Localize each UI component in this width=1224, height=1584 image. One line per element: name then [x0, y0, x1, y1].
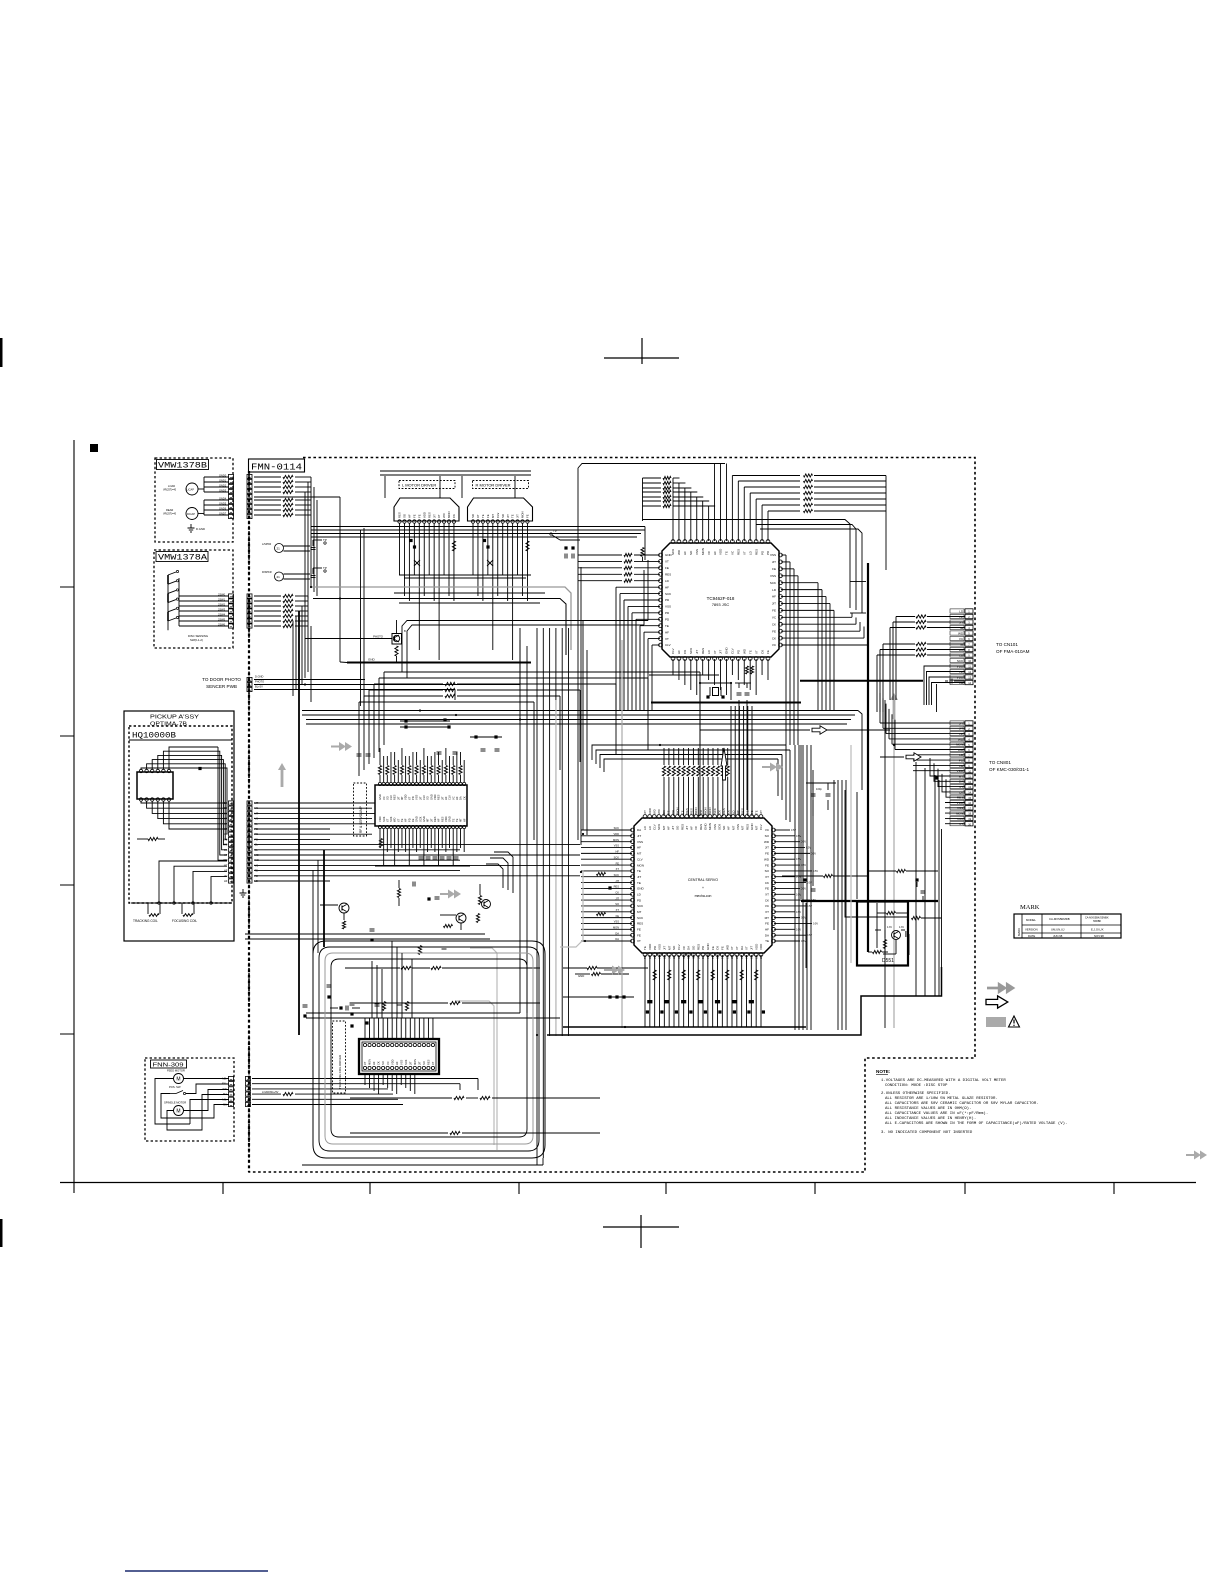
svg-text:WD: WD	[958, 631, 964, 635]
svg-text:VDD: VDD	[378, 816, 382, 822]
VMW1378B label box	[157, 460, 209, 470]
svg-text:VC: VC	[451, 796, 455, 800]
photodiode bottom wires	[141, 802, 227, 804]
svg-text:0.5V: 0.5V	[813, 922, 818, 925]
VMW1378A harness wires	[254, 595, 281, 597]
svg-text:21: 21	[277, 547, 281, 551]
loop bottom rails	[302, 1164, 543, 1166]
svg-text:RES: RES	[433, 816, 437, 822]
svg-text:WD: WD	[657, 809, 661, 814]
svg-text:TE: TE	[400, 818, 404, 822]
IC601 TC9462F	[662, 543, 779, 657]
svg-text:VC: VC	[382, 796, 386, 800]
svg-text:SO: SO	[672, 945, 676, 950]
svg-text:GND1: GND1	[219, 478, 227, 482]
IC801 bottom components	[653, 970, 656, 980]
svg-text:GND: GND	[706, 943, 710, 951]
svg-text:CK: CK	[462, 796, 466, 800]
svg-text:4.3V: 4.3V	[887, 926, 892, 929]
svg-text:UM,UN,UJ: UM,UN,UJ	[1051, 928, 1065, 932]
pickup harness bends	[329, 829, 331, 941]
svg-text:RES: RES	[680, 824, 684, 830]
svg-text:0.5V: 0.5V	[811, 852, 816, 855]
top long rails y526-537	[311, 526, 645, 528]
caps 100p	[811, 793, 816, 795]
IC601 left staircase	[643, 477, 662, 479]
IC401 body	[375, 785, 467, 826]
IC401 bottom rail	[375, 865, 470, 867]
svg-text:PHOTO: PHOTO	[255, 680, 264, 684]
svg-text:FE: FE	[417, 514, 421, 518]
gray arrow servo	[440, 890, 461, 899]
photo wires	[305, 638, 392, 640]
svg-text:HF: HF	[713, 551, 717, 555]
svg-text:CLV: CLV	[677, 944, 681, 950]
svg-text:VR(25T)=40: VR(25T)=40	[163, 513, 177, 516]
svg-text:LD: LD	[663, 956, 667, 959]
svg-text:SO: SO	[667, 955, 671, 959]
door photo wires	[254, 679, 365, 681]
connector block VMW1378A dashed box	[154, 550, 233, 648]
right spines x838-846	[837, 780, 839, 1030]
svg-text:L/SPKR: L/SPKR	[262, 542, 271, 546]
svg-text:VDD: VDD	[404, 794, 408, 800]
CN801 wires	[880, 722, 965, 724]
svg-text:HF: HF	[637, 846, 641, 850]
svg-text:XT: XT	[224, 817, 228, 821]
svg-text:SCK: SCK	[418, 816, 422, 822]
IC801 left bus corner gray	[560, 870, 583, 947]
svg-text:HF: HF	[677, 650, 681, 654]
resistor under photo	[395, 646, 398, 656]
svg-text:ALL INDUCTANCE VALUES ARE IN H: ALL INDUCTANCE VALUES ARE IN HENRY(H).	[885, 1116, 976, 1121]
svg-text:TE: TE	[643, 946, 647, 950]
connector CN-FNN-a	[229, 1076, 234, 1080]
svg-text:JIT: JIT	[516, 514, 520, 518]
connector CN-FNN-b	[246, 1076, 251, 1080]
gray vertical x894 with arrow	[893, 719, 895, 1028]
svg-text:SO: SO	[676, 825, 680, 830]
GND rail y1027	[563, 1026, 806, 1028]
svg-text:SW(0-1-2): SW(0-1-2)	[190, 638, 203, 642]
svg-text:MT: MT	[459, 818, 463, 822]
registration bar left lower	[0, 1219, 3, 1247]
junction La	[409, 539, 412, 542]
svg-text:CLV: CLV	[448, 795, 452, 800]
IC451 top rail	[306, 1017, 560, 1019]
rail corners to IC601	[644, 527, 646, 561]
svg-text:FE: FE	[765, 852, 769, 856]
svg-text:VSS: VSS	[614, 844, 619, 848]
svg-text:WD: WD	[223, 837, 227, 841]
junction Lb	[413, 545, 416, 548]
svg-text:SO: SO	[422, 1061, 426, 1065]
svg-text:XT: XT	[735, 946, 739, 950]
photodiode IC	[137, 772, 173, 799]
svg-text:0.5V: 0.5V	[796, 835, 801, 838]
VMW1378A harness bends	[307, 596, 309, 672]
svg-text:CK: CK	[750, 955, 754, 959]
svg-text:JIT: JIT	[772, 560, 776, 564]
svg-text:0.5V: 0.5V	[806, 847, 811, 850]
IC L MOTOR DRIVER	[399, 481, 455, 489]
svg-text:21: 21	[277, 575, 281, 579]
svg-text:FE: FE	[412, 514, 416, 518]
svg-text:0.5V: 0.5V	[801, 940, 806, 943]
bold rail x868	[867, 563, 869, 952]
svg-text:WD: WD	[759, 955, 763, 959]
svg-text:0.5V: 0.5V	[801, 864, 806, 867]
junction Rb	[486, 545, 489, 548]
svg-text:0.5V: 0.5V	[807, 882, 812, 885]
junction pickup	[198, 767, 201, 770]
svg-text:FE: FE	[616, 914, 620, 918]
driver cross rails	[399, 574, 531, 576]
svg-text:HF: HF	[372, 1061, 376, 1065]
svg-text:JUN.98: JUN.98	[1053, 934, 1063, 938]
svg-text:TE: TE	[637, 881, 641, 885]
IC401 bottom wires	[379, 829, 381, 848]
IC801 right connections	[800, 745, 802, 899]
svg-text:R/SPKR: R/SPKR	[262, 570, 272, 574]
svg-text:MON: MON	[368, 1059, 372, 1065]
svg-text:FE: FE	[711, 946, 715, 950]
svg-text:RES: RES	[696, 944, 700, 950]
left tick y736	[60, 735, 74, 737]
Q551 block box	[857, 902, 908, 966]
svg-text:0.5V: 0.5V	[801, 917, 806, 920]
svg-text:BL+5V: BL+5V	[255, 685, 263, 689]
transistor Q402	[339, 903, 349, 913]
svg-text:TE: TE	[725, 551, 729, 555]
svg-text:HF: HF	[677, 955, 681, 959]
svg-text:2SW3: 2SW3	[218, 607, 226, 611]
board FMN-0114 label box	[249, 459, 305, 472]
loop right link	[545, 1029, 600, 1031]
svg-text:CLV: CLV	[637, 857, 643, 861]
connector block VMW1378B dashed box	[155, 458, 233, 542]
svg-text:MT: MT	[765, 916, 769, 920]
svg-text:TE: TE	[455, 818, 459, 822]
svg-text:TE: TE	[637, 869, 641, 873]
VMW1378B internal wires	[204, 476, 229, 478]
crystal X801	[713, 688, 719, 696]
svg-text:SENCER PWB: SENCER PWB	[206, 684, 237, 689]
caps near crystal	[737, 692, 742, 694]
svg-text:SCK: SCK	[614, 855, 620, 859]
svg-text:0.5V: 0.5V	[796, 858, 801, 861]
svg-text:TE: TE	[721, 955, 725, 959]
spine tails	[536, 1036, 538, 1165]
svg-text:L/CAP: L/CAP	[187, 488, 195, 492]
big loop 4	[331, 959, 527, 1137]
white arrow CN801	[880, 756, 904, 758]
svg-text:FE: FE	[772, 609, 776, 613]
registration bar left upper	[0, 338, 3, 367]
svg-text:GND: GND	[415, 816, 419, 822]
svg-text:PD: PD	[411, 796, 415, 800]
loop verticals	[371, 961, 373, 1018]
svg-text:MT: MT	[741, 826, 745, 830]
svg-text:HF: HF	[665, 630, 669, 634]
gray spine x622	[621, 640, 623, 1028]
svg-text:ALL CAPACITANCE VALUES ARE IN: ALL CAPACITANCE VALUES ARE IN uF(*:pF/Rm…	[885, 1111, 988, 1116]
svg-text:HF: HF	[437, 818, 441, 822]
mid rails extra	[394, 592, 545, 594]
svg-text:MON: MON	[613, 926, 619, 930]
svg-text:1.VOLTAGES ARE DC-MEASURED WIT: 1.VOLTAGES ARE DC-MEASURED WITH A DIGITA…	[881, 1079, 1006, 1083]
svg-text:TE: TE	[511, 514, 515, 518]
legend white arrow	[986, 996, 1008, 1008]
svg-text:WD: WD	[223, 858, 227, 862]
mid mega pair gray	[311, 587, 571, 650]
white arrow mid rail	[700, 729, 810, 731]
svg-text:WD: WD	[730, 955, 734, 959]
svg-text:TO CN801: TO CN801	[989, 760, 1011, 765]
vertical pair x360	[360, 530, 362, 706]
svg-text:SCK: SCK	[689, 648, 693, 654]
svg-text:M2+: M2+	[222, 1077, 228, 1081]
svg-text:MON: MON	[704, 807, 708, 814]
bottom center crop cross	[603, 1226, 679, 1228]
svg-text:RES: RES	[699, 824, 703, 830]
svg-text:FE: FE	[526, 514, 530, 518]
junction Ra	[483, 539, 486, 542]
mid rail bundle	[302, 710, 858, 712]
CN801 junction	[935, 776, 938, 779]
VMW1378B harness bend down	[310, 477, 312, 587]
svg-text:SO: SO	[385, 796, 389, 800]
svg-text:D.GND: D.GND	[196, 527, 205, 531]
svg-text:M1+: M1+	[222, 1097, 228, 1101]
svg-text:CK: CK	[740, 955, 744, 959]
svg-text:FE: FE	[411, 818, 415, 822]
GND bold rail 702	[651, 702, 801, 704]
svg-text:XT: XT	[224, 822, 228, 826]
IC451 top components	[382, 1002, 385, 1011]
svg-text:FMN-0114: FMN-0114	[251, 462, 302, 473]
pickup outer box	[124, 711, 234, 941]
svg-text:HF: HF	[444, 796, 448, 800]
mid components under IC401	[397, 889, 400, 898]
big loop 2	[319, 947, 539, 1151]
svg-text:CLV: CLV	[759, 824, 763, 830]
svg-text:TO CN101: TO CN101	[996, 642, 1018, 647]
resistor RLv	[452, 541, 455, 551]
svg-text:XT: XT	[713, 650, 717, 654]
svg-text:SCK: SCK	[404, 1059, 408, 1065]
svg-text:OF KMC-030/031-1: OF KMC-030/031-1	[989, 767, 1030, 772]
svg-text:XT: XT	[616, 908, 620, 912]
VMW1378A label box	[156, 552, 208, 562]
connector CN801	[965, 721, 973, 725]
svg-text:FE: FE	[765, 863, 769, 867]
svg-text:VSS: VSS	[415, 795, 419, 800]
pos switch	[170, 1093, 176, 1095]
svg-text:JIT: JIT	[615, 896, 619, 900]
svg-text:GND: GND	[429, 794, 433, 800]
loop cross rails	[345, 967, 587, 969]
svg-text:GND: GND	[704, 823, 708, 831]
svg-text:SO: SO	[765, 869, 770, 873]
svg-text:0.5V: 0.5V	[813, 870, 818, 873]
svg-text:MODEL: MODEL	[1026, 918, 1036, 922]
page frame left rule	[73, 440, 75, 1193]
svg-text:M: M	[176, 1109, 180, 1115]
svg-text:FE: FE	[766, 650, 770, 654]
pickup resistor	[148, 837, 158, 840]
svg-text:VSS: VSS	[665, 605, 671, 609]
svg-text:R MOTOR DRIVER: R MOTOR DRIVER	[476, 483, 511, 488]
svg-text:SCK: SCK	[957, 659, 964, 663]
svg-text:RES: RES	[701, 648, 705, 654]
svg-text:0.5V: 0.5V	[796, 911, 801, 914]
FNN harness wires	[252, 1078, 478, 1080]
svg-text:MT: MT	[637, 852, 641, 856]
svg-text:CLV: CLV	[731, 648, 735, 654]
svg-text:GND4: GND4	[219, 496, 227, 500]
svg-text:VDD: VDD	[444, 816, 448, 822]
svg-text:CK: CK	[754, 955, 758, 959]
svg-text:XT: XT	[730, 946, 734, 950]
svg-text:TE: TE	[755, 810, 759, 814]
svg-text:GND: GND	[750, 823, 754, 831]
svg-text:100p: 100p	[816, 787, 822, 791]
svg-text:VSS: VSS	[658, 954, 662, 959]
svg-text:DA: DA	[224, 801, 228, 805]
svg-text:2SW2: 2SW2	[218, 602, 226, 606]
svg-text:VSS: VSS	[736, 824, 740, 830]
svg-text:MARK: MARK	[1017, 928, 1021, 936]
svg-text:CK: CK	[765, 881, 769, 885]
IC801 left bus	[581, 829, 632, 831]
capacitor bank right of drivers	[564, 546, 567, 549]
svg-text:SO: SO	[426, 796, 430, 800]
connector CN1378B-b	[247, 474, 252, 478]
svg-text:XT: XT	[437, 514, 441, 518]
svg-text:MT: MT	[224, 863, 228, 867]
svg-text:WD: WD	[725, 944, 729, 950]
svg-text:MON: MON	[708, 807, 712, 814]
svg-text:MT: MT	[731, 826, 735, 830]
big loop 1	[313, 941, 545, 1158]
svg-text:TC9462F-018: TC9462F-018	[707, 596, 735, 601]
svg-text:VMW1378A: VMW1378A	[158, 554, 207, 563]
IC601 rail y519	[643, 520, 851, 609]
IC601 right staircase	[732, 475, 800, 477]
svg-text:DA: DA	[637, 828, 641, 832]
svg-text:VR(25T)=40: VR(25T)=40	[163, 489, 177, 492]
svg-text:VC: VC	[959, 637, 964, 641]
svg-text:JIT: JIT	[637, 834, 641, 838]
IC801 bottom forest	[644, 955, 646, 1027]
svg-text:TE: TE	[711, 955, 715, 959]
wire y500 drop	[316, 500, 318, 596]
svg-text:MON: MON	[692, 953, 696, 959]
svg-text:FE: FE	[765, 922, 769, 926]
svg-text:MT: MT	[400, 796, 404, 800]
driver top rails	[380, 470, 531, 472]
page frame bottom rule	[60, 1182, 1196, 1184]
svg-text:XT: XT	[745, 946, 749, 950]
svg-text:RES: RES	[398, 512, 402, 518]
svg-text:HF: HF	[408, 514, 412, 518]
svg-text:SCK: SCK	[665, 592, 671, 596]
svg-text:RES: RES	[745, 824, 749, 830]
vertical x941 upper	[941, 829, 943, 996]
svg-text:VERSION: VERSION	[1025, 928, 1038, 932]
IC401 label box	[354, 783, 367, 836]
svg-text:HF: HF	[690, 826, 694, 830]
svg-text:RES: RES	[614, 885, 620, 889]
gray corner wires	[470, 948, 497, 1150]
svg-text:VSS: VSS	[695, 549, 699, 555]
svg-text:RES: RES	[737, 549, 741, 555]
svg-text:WD: WD	[442, 513, 446, 518]
svg-text:2SW4: 2SW4	[218, 612, 226, 616]
svg-text:XT: XT	[224, 853, 228, 857]
svg-text:M: M	[176, 1077, 180, 1083]
svg-text:VDD: VDD	[754, 943, 758, 950]
svg-text:JIT: JIT	[440, 796, 444, 800]
svg-text:MON: MON	[613, 838, 619, 842]
svg-text:PD: PD	[407, 818, 411, 822]
IC401 pins	[378, 782, 381, 785]
wire bottom link1	[532, 1143, 534, 1145]
motor L/CAP	[186, 483, 198, 495]
svg-text:LOAD: LOAD	[168, 484, 175, 488]
IC601 left bus	[578, 554, 622, 556]
svg-text:DA: DA	[701, 955, 705, 959]
svg-text:SO: SO	[722, 825, 726, 830]
svg-text:FE: FE	[665, 566, 669, 570]
legend gray box warning	[986, 1017, 1006, 1027]
svg-text:RES: RES	[427, 1059, 431, 1065]
svg-text:D551: D551	[882, 958, 894, 964]
component R/SPKR 21b	[275, 572, 284, 581]
svg-text:JIT: JIT	[696, 955, 700, 959]
svg-text:0.5V: 0.5V	[796, 928, 801, 931]
svg-text:LOADING+5V: LOADING+5V	[262, 1090, 279, 1094]
svg-text:VSS: VSS	[770, 553, 776, 557]
svg-text:ALL E-CAPACITORS ARE SHOWN IN: ALL E-CAPACITORS ARE SHOWN IN THE FORM O…	[885, 1121, 1067, 1126]
capacitor TP1	[311, 547, 316, 549]
svg-text:WD: WD	[764, 840, 770, 844]
svg-text:CK: CK	[725, 955, 729, 959]
svg-text:M1-: M1-	[223, 1103, 228, 1107]
svg-text:GND: GND	[665, 553, 673, 557]
svg-text:DA: DA	[459, 796, 463, 800]
svg-text:FOCUSING COIL: FOCUSING COIL	[172, 919, 197, 923]
svg-text:VC: VC	[386, 1061, 390, 1065]
svg-text:GND: GND	[578, 974, 584, 978]
IC451 body	[359, 1039, 439, 1074]
svg-text:2SW6: 2SW6	[218, 622, 226, 626]
svg-text:MT: MT	[426, 818, 430, 822]
svg-text:XT: XT	[665, 560, 669, 564]
svg-text:GND2: GND2	[219, 483, 227, 487]
svg-text:HF: HF	[765, 928, 769, 932]
component L/SPKR 21a	[275, 544, 284, 553]
misc RC parts center-left	[245, 933, 485, 935]
svg-text:CK: CK	[772, 636, 776, 640]
svg-text:SW-: SW-	[223, 1087, 228, 1091]
board FMN-0114 dashed border	[249, 458, 975, 1173]
svg-text:WD: WD	[742, 648, 746, 654]
svg-text:MON: MON	[701, 548, 705, 555]
svg-text:VDD: VDD	[614, 832, 620, 836]
svg-text:CK: CK	[452, 514, 456, 518]
